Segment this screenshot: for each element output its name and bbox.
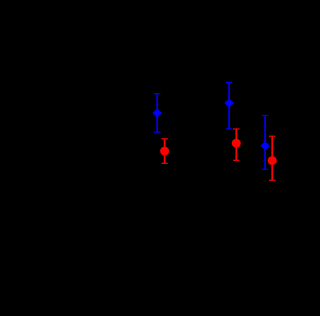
blue error bar 1 — [154, 94, 160, 132]
blue diamond marker 1 — [153, 108, 162, 117]
blue diamond marker 2 — [224, 98, 233, 107]
blue diamond marker 3 — [260, 141, 269, 150]
red circle marker 3 — [268, 156, 277, 165]
blue error bar 2 — [226, 82, 232, 129]
red circle marker 2 — [232, 139, 241, 148]
blue error bar 3 — [262, 116, 268, 170]
red circle marker 1 — [160, 147, 169, 156]
red error bar 2 — [233, 129, 239, 160]
red error bar 1 — [161, 139, 167, 164]
red error bar 3 — [269, 136, 275, 180]
